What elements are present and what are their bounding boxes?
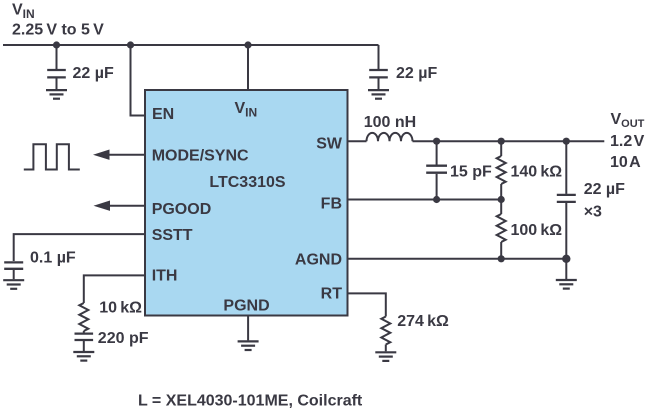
svg-text:274 kΩ: 274 kΩ xyxy=(397,313,449,330)
svg-text:140 kΩ: 140 kΩ xyxy=(511,163,563,180)
node SW-C5 xyxy=(433,138,440,145)
svg-text:FB: FB xyxy=(321,196,342,213)
wire SSTT xyxy=(14,234,145,261)
node AGND-COUT xyxy=(562,255,570,263)
svg-text:100 nH: 100 nH xyxy=(364,114,416,131)
resistor R1 10k xyxy=(79,303,88,331)
wire FB xyxy=(348,199,502,201)
svg-text:2.25 V to 5 V: 2.25 V to 5 V xyxy=(12,22,104,39)
svg-text:22 µF: 22 µF xyxy=(396,65,437,82)
svg-text:SSTT: SSTT xyxy=(152,227,193,244)
svg-text:PGOOD: PGOOD xyxy=(152,201,212,218)
wire VIN rail xyxy=(3,44,379,46)
svg-text:22 µF: 22 µF xyxy=(73,65,114,82)
svg-text:0.1 µF: 0.1 µF xyxy=(30,249,76,266)
svg-text:10 kΩ: 10 kΩ xyxy=(99,300,142,317)
wire VIN pin xyxy=(247,45,249,90)
resistor R3 100k xyxy=(497,200,506,259)
wire SW to inductor xyxy=(348,140,367,142)
wire SW node to VOUT xyxy=(413,140,605,142)
ground C1 xyxy=(46,90,67,99)
svg-text:1.2 V: 1.2 V xyxy=(610,133,645,150)
node SW-R2 xyxy=(498,138,505,145)
node SW-COUT VOUT xyxy=(563,138,570,145)
svg-text:MODE/SYNC: MODE/SYNC xyxy=(152,147,249,164)
inductor L1 100nH xyxy=(367,133,413,141)
svg-text:×3: ×3 xyxy=(584,203,602,220)
svg-text:AGND: AGND xyxy=(295,252,342,269)
svg-text:ITH: ITH xyxy=(152,267,178,284)
capacitor C2 22uF input right xyxy=(369,45,388,89)
svg-text:LTC3310S: LTC3310S xyxy=(209,174,286,191)
svg-text:22 µF: 22 µF xyxy=(584,181,625,198)
op-amp/IC U1 LTC3310S body xyxy=(145,90,348,316)
wire EN branch xyxy=(131,45,146,116)
svg-text:SW: SW xyxy=(316,136,343,153)
ground C3 xyxy=(3,280,24,289)
svg-text:VOUT: VOUT xyxy=(611,111,645,130)
svg-text:VIN: VIN xyxy=(12,2,35,22)
svg-text:RT: RT xyxy=(321,285,343,302)
node FB-R3 xyxy=(498,196,505,203)
resistor R2 140k xyxy=(497,141,506,199)
capacitor C3 0.1uF xyxy=(4,262,23,279)
svg-text:100 kΩ: 100 kΩ xyxy=(511,222,563,239)
svg-text:L = XEL4030-101ME, Coilcraft: L = XEL4030-101ME, Coilcraft xyxy=(138,393,363,410)
wire PGOOD arrow shaft xyxy=(107,205,145,207)
svg-text:EN: EN xyxy=(152,106,174,123)
ground C2 xyxy=(368,90,389,99)
svg-text:10 A: 10 A xyxy=(610,154,641,171)
wire RT xyxy=(348,293,386,316)
ground C4 xyxy=(73,352,94,361)
svg-text:PGND: PGND xyxy=(223,298,269,315)
wire AGND xyxy=(348,258,567,260)
node rail-C1 xyxy=(53,41,60,48)
node AGND-R3 xyxy=(498,255,505,262)
arrow head MODE/SYNC xyxy=(93,150,110,160)
node rail-EN xyxy=(127,41,134,48)
arrow head PGOOD xyxy=(94,201,111,211)
wire ITH xyxy=(84,275,145,303)
ground COUT xyxy=(556,259,577,289)
node rail-VIN pin xyxy=(244,41,251,48)
svg-text:220 pF: 220 pF xyxy=(98,330,149,347)
ground PGND xyxy=(238,317,259,351)
capacitor C5 15pF xyxy=(426,141,447,199)
svg-text:15 pF: 15 pF xyxy=(450,163,492,180)
ground R4 xyxy=(375,345,396,361)
resistor R4 274k xyxy=(381,317,390,345)
capacitor C4 220pF xyxy=(75,331,94,351)
wire MODE/SYNC arrow shaft xyxy=(107,154,145,156)
capacitor COUT 22uF x3 xyxy=(557,141,576,259)
clock square wave symbol xyxy=(24,144,80,169)
node FB-C5 xyxy=(433,196,440,203)
capacitor C1 22uF input left xyxy=(47,45,66,89)
